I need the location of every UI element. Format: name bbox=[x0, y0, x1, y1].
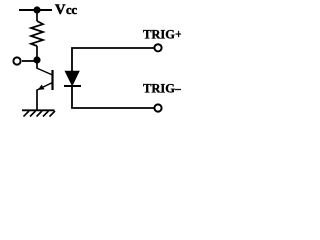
transistor Q1 base bar bbox=[51, 70, 53, 90]
wire collector stub bbox=[36, 60, 38, 69]
wire resistor top lead bbox=[36, 10, 38, 21]
resistor R1 bbox=[31, 21, 43, 46]
ground hatch 5 bbox=[50, 111, 56, 117]
ground hatch 3 bbox=[37, 111, 43, 117]
node junction at resistor bottom bbox=[33, 56, 40, 63]
transistor Q1 collector diagonal bbox=[37, 68, 53, 75]
wire resistor bottom lead bbox=[36, 46, 38, 58]
svg-text:TRIG+: TRIG+ bbox=[143, 28, 181, 42]
terminal open circle TRIG- bbox=[154, 104, 161, 111]
terminal open circle (output node) bbox=[13, 57, 20, 64]
svg-text:Vcc: Vcc bbox=[55, 2, 78, 18]
diode D1 triangle (LED) bbox=[65, 71, 80, 87]
ground hatch 4 bbox=[43, 111, 49, 117]
wire emitter lead to ground bbox=[36, 90, 38, 111]
ground hatch 1 bbox=[24, 111, 30, 117]
svg-text:TRIG–: TRIG– bbox=[143, 82, 181, 96]
wire anode lead + TRIG+ wire bbox=[72, 48, 154, 71]
ground hatch 2 bbox=[30, 111, 36, 117]
wire to input terminal bbox=[22, 60, 35, 62]
node junction at Vcc rail bbox=[33, 6, 40, 13]
wire cathode lead + TRIG- wire bbox=[72, 86, 154, 108]
transistor Q1 emitter diagonal bbox=[37, 83, 53, 91]
wire Vcc rail bbox=[19, 9, 52, 11]
transistor Q1 emitter arrowhead bbox=[38, 85, 45, 90]
ground bar bbox=[22, 109, 55, 111]
terminal open circle TRIG+ bbox=[154, 44, 161, 51]
diode D1 cathode bar bbox=[64, 85, 81, 87]
